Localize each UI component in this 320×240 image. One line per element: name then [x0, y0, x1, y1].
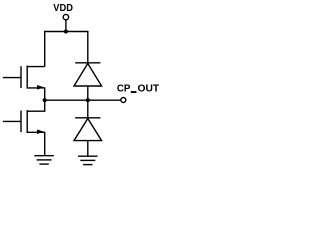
node A junction dot (M1 source / M2 drain / CP_OUT) — [43, 98, 47, 102]
wire VDD rail (horizontal) — [45, 31, 88, 33]
diode D2 (clamp to ground) — [74, 100, 102, 156]
transistor M2 (lower MOSFET) — [3, 100, 45, 155]
wire rail to D1 cathode — [87, 31, 89, 63]
wire CP_OUT net to D2 cathode — [87, 100, 89, 118]
wire VDD stem — [65, 20, 67, 32]
wire CP_OUT net (horizontal) — [45, 99, 121, 101]
VDD terminal (open circle) — [63, 14, 68, 19]
M2 gate bar — [20, 111, 22, 133]
svg-text:VDD: VDD — [53, 2, 73, 14]
diode D1 (clamp to VDD) — [74, 63, 102, 100]
M2 drain lead — [27, 100, 45, 111]
D1 anode triangle — [74, 64, 102, 87]
M1 source arrow — [37, 85, 44, 90]
M2 channel bar — [26, 110, 28, 133]
M2 source arrow — [37, 129, 44, 134]
M1 channel bar — [26, 66, 28, 89]
wire rail to M1 drain — [44, 31, 46, 67]
wire D1 anode to CP_OUT net — [87, 86, 89, 100]
ground bar 3 — [83, 164, 92, 166]
ground bar 2 — [37, 159, 52, 161]
ground (right, below D2) — [78, 156, 98, 164]
junction dot CP_OUT / diode branch — [86, 98, 90, 102]
CP_OUT terminal (open circle) — [121, 98, 126, 103]
wire D2 anode to ground — [87, 141, 89, 157]
M2 gate lead — [3, 120, 21, 122]
M2 source lead — [27, 132, 45, 155]
ground bar 1 — [78, 155, 98, 157]
svg-text:CP: CP — [117, 83, 130, 95]
D2 cathode bar — [75, 117, 100, 119]
ground bar 2 — [80, 159, 95, 161]
M1 gate bar — [20, 66, 22, 88]
M1 drain lead — [27, 66, 45, 68]
junction dot on VDD rail — [64, 29, 68, 33]
D2 anode triangle — [74, 119, 102, 141]
M1 source lead — [27, 88, 45, 100]
transistor M1 (upper MOSFET) — [3, 66, 45, 101]
svg-text:OUT: OUT — [138, 83, 160, 95]
ground (left, below M2 source) — [34, 156, 54, 164]
D1 cathode bar — [75, 62, 100, 64]
M1 gate lead — [3, 77, 21, 79]
ground bar 1 — [34, 155, 54, 157]
ground bar 3 — [39, 163, 48, 165]
